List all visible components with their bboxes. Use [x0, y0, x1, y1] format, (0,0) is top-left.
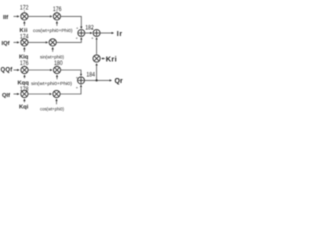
svg-text:Qr: Qr [115, 78, 123, 85]
svg-text:176: 176 [53, 7, 62, 13]
wire cos carrier up into M8 [56, 99, 58, 104]
wire M1 to M2 [28, 15, 52, 17]
wire sin carrier up into M6 [56, 75, 58, 79]
wire IIf to multiplier [14, 15, 20, 17]
svg-text:IQf: IQf [2, 41, 10, 47]
svg-text:+: + [91, 35, 94, 40]
svg-text:QQf: QQf [1, 68, 14, 74]
wire cos carrier up into M2 [56, 21, 58, 25]
wire SQ to Qr output [85, 79, 112, 81]
svg-text:sin(wt+phi0): sin(wt+phi0) [40, 54, 64, 60]
wire into summer S1 top [80, 26, 82, 28]
wire M3 to M4 [28, 41, 48, 43]
multiplier M8 (x cos carrier) [53, 90, 60, 97]
wire QIf to multiplier [14, 93, 20, 95]
svg-text:sin(wt+phi0+Phi0): sin(wt+phi0+Phi0) [31, 81, 72, 86]
summer SQ [78, 77, 85, 84]
wire M7 to M8 [28, 93, 51, 95]
multiplier M7 (QIf x Kqi) [21, 90, 28, 97]
svg-text:cos(wt+phi0): cos(wt+phi0) [40, 107, 64, 113]
wire leader 180 [56, 64, 58, 67]
wire Kiq up into M3 [23, 47, 25, 51]
wire leader 176b [24, 64, 26, 67]
svg-text:+: + [76, 26, 79, 31]
svg-text:cos(wt+phi0+Phi0): cos(wt+phi0+Phi0) [33, 28, 73, 33]
svg-text:IIf: IIf [3, 15, 8, 21]
wire Kqi up into M7 [23, 99, 25, 102]
multiplier M5 (QQf x Kqq) [21, 66, 28, 73]
svg-text:Kri: Kri [106, 55, 117, 64]
summer S2 [93, 30, 100, 37]
wire M5 to M6 [28, 69, 52, 71]
wire into summer S1 bottom [80, 38, 82, 40]
wire Kqq up into M5 [24, 75, 26, 78]
wire sin carrier up into M4 [52, 47, 54, 51]
wire IQf to multiplier [14, 41, 20, 43]
svg-text:QIf: QIf [2, 93, 10, 99]
svg-text:Kqi: Kqi [19, 105, 29, 111]
wire S1 to S2 [85, 32, 92, 34]
wire into summer SQ bottom [80, 85, 82, 88]
svg-text:+: + [76, 36, 79, 41]
wire leader 172 [23, 10, 25, 12]
svg-text:184: 184 [86, 72, 95, 78]
wire M2 to corner [61, 16, 82, 28]
multiplier MK (x Kri) [93, 55, 100, 62]
wire Kri into MK from right [102, 58, 105, 60]
wire QQf to multiplier [14, 69, 20, 71]
multiplier M1 (IIf x Kii) [21, 13, 28, 20]
wire S2 to Ir output [100, 32, 113, 34]
wire M4 to corner up [57, 39, 82, 43]
svg-text:Ir: Ir [117, 31, 123, 38]
wire Kii up into M1 [23, 21, 25, 25]
svg-text:180: 180 [54, 61, 63, 67]
junction Qr tap [96, 79, 98, 81]
wire M8 to corner up [60, 88, 81, 94]
wire leader 176 [56, 11, 58, 12]
svg-text:Kii: Kii [20, 28, 28, 34]
svg-text:Kiq: Kiq [19, 55, 29, 61]
wire M6 to corner down [61, 70, 81, 75]
summer S1 [78, 30, 85, 37]
svg-text:+: + [76, 85, 79, 90]
multiplier M2 (x cos carrier) [53, 13, 60, 20]
wire Kri multiplier output up into S2 bottom [96, 38, 98, 55]
multiplier M4 (x sin carrier) [49, 39, 56, 46]
svg-text:Kqq: Kqq [18, 81, 30, 87]
multiplier M6 (x sin carrier) [53, 66, 60, 73]
multiplier M3 (IQf x Kiq) [21, 39, 28, 46]
wire Qr tap up into MK bottom [96, 64, 98, 81]
wire into summer SQ top [80, 73, 82, 75]
